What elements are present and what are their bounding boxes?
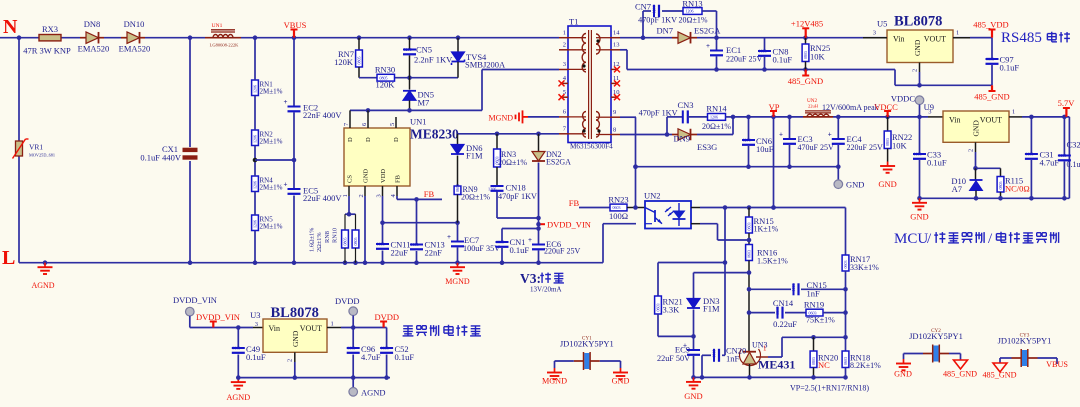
svg-text:GND: GND	[846, 180, 864, 190]
svg-text:UN1: UN1	[212, 23, 223, 29]
svg-text:20Ω±1%: 20Ω±1%	[702, 122, 731, 131]
svg-text:0.1uF: 0.1uF	[246, 352, 266, 362]
svg-text:0603: 0603	[843, 261, 848, 269]
svg-text:MGND: MGND	[542, 377, 567, 386]
svg-text:0603: 0603	[986, 56, 994, 61]
svg-text:DVDD_VIN: DVDD_VIN	[173, 295, 217, 305]
svg-text:1: 1	[763, 345, 767, 353]
svg-text:MCU: MCU	[894, 231, 928, 247]
svg-text:FB: FB	[569, 198, 580, 208]
svg-text:2: 2	[563, 42, 566, 49]
svg-text:10K: 10K	[892, 141, 908, 151]
svg-text:0603: 0603	[1058, 153, 1066, 158]
svg-text:1: 1	[331, 321, 334, 328]
svg-text:485_GND: 485_GND	[974, 92, 1009, 102]
svg-text:220uF 25V: 220uF 25V	[726, 55, 762, 64]
svg-text:CN18: CN18	[506, 183, 526, 193]
svg-text:1206: 1206	[743, 137, 751, 142]
svg-text:0805: 0805	[775, 307, 780, 315]
svg-text:Vin: Vin	[269, 324, 281, 333]
svg-text:3: 3	[928, 109, 931, 116]
svg-text:EMA520: EMA520	[119, 44, 151, 54]
svg-text:0603: 0603	[377, 241, 385, 246]
svg-text:22uH: 22uH	[808, 104, 819, 109]
svg-text:0603: 0603	[791, 284, 796, 292]
svg-text:5: 5	[563, 89, 566, 96]
svg-text:CS: CS	[347, 175, 354, 183]
svg-text:AGND: AGND	[226, 393, 250, 402]
svg-text:ME8230: ME8230	[410, 127, 459, 142]
svg-text:+: +	[528, 236, 532, 244]
svg-text:F1M: F1M	[703, 304, 720, 314]
svg-text:0603: 0603	[656, 304, 661, 312]
svg-text:M63156300F4: M63156300F4	[570, 143, 613, 151]
svg-text:0.1uF: 0.1uF	[1067, 160, 1080, 169]
svg-text:1.6Ω±1%: 1.6Ω±1%	[309, 227, 316, 252]
svg-text:F1M: F1M	[466, 151, 483, 161]
svg-text:A7: A7	[952, 184, 962, 194]
svg-text:470pF 1KV: 470pF 1KV	[498, 192, 537, 201]
svg-text:0805: 0805	[803, 51, 808, 59]
svg-text:0603: 0603	[411, 242, 419, 247]
svg-text:22uF 50V: 22uF 50V	[657, 354, 690, 363]
svg-text:VOUT: VOUT	[300, 324, 322, 333]
svg-text:+: +	[284, 181, 288, 189]
svg-text:U5: U5	[877, 19, 887, 29]
svg-text:GND: GND	[913, 39, 922, 56]
svg-text:0603: 0603	[455, 184, 460, 192]
svg-text:D: D	[393, 137, 400, 142]
svg-text:+: +	[447, 233, 451, 241]
svg-text:5.7V: 5.7V	[1058, 98, 1076, 108]
svg-text:L: L	[2, 247, 15, 269]
svg-text:EC1: EC1	[726, 45, 741, 55]
svg-text:Vin: Vin	[893, 35, 905, 44]
svg-text:D: D	[347, 137, 354, 142]
svg-text:1206: 1206	[404, 47, 412, 52]
svg-text:FB: FB	[424, 189, 435, 199]
svg-text:GND: GND	[684, 391, 702, 401]
svg-text:20Ω±1%: 20Ω±1%	[498, 158, 527, 167]
svg-text:+: +	[779, 131, 783, 139]
svg-text:EC9: EC9	[675, 345, 690, 355]
svg-text:MOV25D_681: MOV25D_681	[29, 153, 55, 158]
svg-text:100Ω: 100Ω	[609, 211, 628, 221]
svg-text:ME431: ME431	[758, 358, 795, 372]
svg-text:0603: 0603	[747, 223, 752, 231]
svg-text:AGND: AGND	[361, 388, 386, 398]
svg-text:0805: 0805	[343, 238, 348, 246]
svg-text:20Ω±1%: 20Ω±1%	[461, 193, 490, 202]
svg-text:5: 5	[389, 123, 396, 126]
svg-text:470pF 1KV: 470pF 1KV	[638, 16, 677, 25]
svg-text:DN10: DN10	[124, 19, 145, 29]
svg-text:JD102KY5PY1: JD102KY5PY1	[909, 331, 963, 341]
svg-text:0603: 0603	[347, 345, 355, 350]
svg-text:M7: M7	[418, 98, 430, 108]
svg-text:22nF: 22nF	[425, 248, 443, 258]
svg-text:75K±1%: 75K±1%	[806, 316, 835, 325]
svg-text:0.1uF 440V: 0.1uF 440V	[140, 153, 181, 163]
svg-text:GND: GND	[612, 377, 630, 386]
svg-text:1nF: 1nF	[807, 289, 821, 299]
svg-text:0.1uF: 0.1uF	[773, 55, 793, 65]
svg-text:RN10: RN10	[332, 228, 339, 243]
svg-text:VOUT: VOUT	[924, 35, 946, 44]
svg-text:3: 3	[563, 61, 566, 68]
svg-text:485_GND: 485_GND	[788, 76, 823, 86]
svg-text:0603: 0603	[232, 345, 240, 350]
svg-text:470pF 1KV: 470pF 1KV	[639, 109, 678, 118]
svg-text:0805: 0805	[811, 357, 816, 365]
svg-text:13: 13	[613, 42, 620, 49]
svg-text:20Ω±1%: 20Ω±1%	[679, 16, 708, 25]
svg-text:GND: GND	[363, 169, 370, 183]
svg-text:RS485: RS485	[1001, 30, 1042, 46]
svg-text:NC: NC	[818, 360, 830, 370]
svg-text:+12V485: +12V485	[791, 19, 823, 29]
svg-text:10uF: 10uF	[756, 144, 774, 154]
svg-text:2M±1%: 2M±1%	[260, 138, 283, 146]
svg-text:2M±1%: 2M±1%	[260, 223, 283, 231]
svg-text:0805: 0805	[496, 239, 504, 244]
svg-text:ES2GA: ES2GA	[546, 158, 571, 167]
svg-text:0805: 0805	[357, 57, 362, 65]
svg-text:MGND: MGND	[489, 114, 514, 123]
svg-text:DN7: DN7	[656, 26, 673, 36]
svg-text:RN13: RN13	[682, 0, 702, 9]
svg-text:33K±1%: 33K±1%	[850, 263, 879, 272]
svg-text:485_GND: 485_GND	[982, 371, 1016, 380]
svg-text:RN30: RN30	[375, 65, 395, 75]
svg-text:11: 11	[613, 75, 619, 82]
svg-text:0805: 0805	[885, 138, 890, 146]
svg-text:10: 10	[613, 89, 620, 96]
svg-text:0.22uF: 0.22uF	[773, 319, 797, 329]
svg-text:N: N	[3, 16, 18, 38]
svg-text:GND: GND	[894, 370, 912, 379]
svg-text:2: 2	[968, 149, 975, 152]
svg-text:GND: GND	[291, 330, 300, 347]
svg-text:0.1uF: 0.1uF	[1000, 63, 1020, 73]
svg-text:0603: 0603	[914, 151, 922, 156]
svg-text:100uF 35V: 100uF 35V	[463, 244, 500, 253]
svg-text:22uF: 22uF	[391, 248, 409, 258]
svg-text:4.7uF: 4.7uF	[361, 352, 381, 362]
svg-text:CN5: CN5	[416, 45, 432, 55]
svg-text:0603: 0603	[747, 250, 752, 258]
svg-text:DVDD: DVDD	[335, 296, 360, 306]
svg-text:RN14: RN14	[706, 104, 727, 114]
svg-text:2: 2	[358, 194, 365, 197]
svg-text:22nF 400V: 22nF 400V	[303, 110, 342, 120]
svg-text:10K: 10K	[810, 52, 826, 62]
svg-text:DN9: DN9	[673, 134, 690, 144]
svg-text:AGND: AGND	[31, 281, 54, 290]
svg-text:1206: 1206	[488, 187, 496, 192]
svg-text:VR1: VR1	[29, 143, 43, 152]
svg-text:BL8078: BL8078	[271, 305, 319, 321]
svg-text:D: D	[365, 137, 372, 142]
svg-text:3: 3	[376, 194, 383, 197]
svg-text:2M±1%: 2M±1%	[260, 88, 283, 96]
svg-text:3.3K: 3.3K	[663, 305, 681, 315]
svg-text:LG80608-222K: LG80608-222K	[210, 43, 239, 48]
svg-text:14: 14	[613, 30, 620, 37]
svg-text:ES3G: ES3G	[697, 142, 717, 152]
svg-text:VBUS: VBUS	[1046, 360, 1068, 369]
svg-text:1: 1	[563, 30, 566, 37]
svg-text:U3: U3	[250, 310, 260, 320]
svg-text:1206: 1206	[253, 135, 258, 143]
svg-text:22uF 400V: 22uF 400V	[303, 193, 342, 203]
svg-text:FB: FB	[395, 174, 402, 183]
svg-text:T1: T1	[569, 17, 578, 27]
svg-text:0805: 0805	[353, 238, 358, 246]
svg-text:GND: GND	[910, 212, 928, 222]
svg-text:EMA520: EMA520	[78, 44, 110, 54]
svg-text:0.1uF: 0.1uF	[927, 158, 947, 168]
svg-text:RN8: RN8	[324, 231, 331, 243]
svg-text:C32: C32	[1067, 140, 1080, 150]
svg-text:470uF 25V: 470uF 25V	[798, 143, 834, 152]
svg-text:3: 3	[873, 30, 876, 37]
svg-text:2: 2	[912, 69, 919, 72]
svg-text:RN19: RN19	[804, 300, 824, 310]
svg-text:1206: 1206	[253, 220, 258, 228]
svg-text:485_VDD: 485_VDD	[973, 20, 1008, 30]
svg-text:+: +	[284, 98, 288, 106]
svg-text:RX3: RX3	[42, 24, 58, 34]
svg-text:13V/20mA: 13V/20mA	[530, 286, 562, 294]
svg-text:NC/0Ω: NC/0Ω	[1005, 184, 1030, 194]
svg-text:1206: 1206	[253, 181, 258, 189]
svg-text:CN3: CN3	[677, 100, 693, 110]
svg-text:47R 3W KNP: 47R 3W KNP	[23, 46, 71, 56]
svg-text:Vin: Vin	[949, 116, 961, 125]
svg-text:RN23: RN23	[608, 195, 628, 205]
svg-text:0805: 0805	[712, 350, 717, 358]
svg-text:0603: 0603	[381, 345, 389, 350]
svg-text:3: 3	[255, 321, 258, 328]
svg-text:DVDD_VIN: DVDD_VIN	[196, 312, 240, 322]
svg-text:120K: 120K	[376, 80, 396, 90]
svg-text:GND: GND	[878, 179, 896, 189]
svg-text:0603: 0603	[759, 48, 767, 53]
svg-text:MGND: MGND	[445, 277, 470, 286]
svg-text:1nF: 1nF	[726, 354, 740, 364]
svg-text:VDDC: VDDC	[891, 94, 915, 104]
svg-text:VDD: VDD	[380, 169, 387, 183]
svg-text:GND: GND	[972, 120, 981, 137]
svg-text:0603: 0603	[843, 357, 848, 365]
svg-text:220uF 25V: 220uF 25V	[847, 143, 883, 152]
svg-text:0805: 0805	[998, 182, 1003, 190]
svg-text:8: 8	[613, 126, 616, 133]
svg-text:UN1: UN1	[410, 117, 427, 127]
svg-text:2M±1%: 2M±1%	[260, 184, 283, 192]
svg-text:1206: 1206	[710, 115, 718, 120]
svg-text:120K: 120K	[334, 57, 354, 67]
svg-text:12: 12	[613, 61, 620, 68]
svg-text:DN8: DN8	[84, 19, 101, 29]
svg-text:CN7: CN7	[635, 2, 651, 12]
svg-text:1K±1%: 1K±1%	[754, 225, 779, 234]
svg-text:DVDD_VIN: DVDD_VIN	[547, 220, 591, 230]
svg-text:1.5K±1%: 1.5K±1%	[757, 257, 788, 266]
svg-text:0.1uF: 0.1uF	[395, 352, 415, 362]
svg-text:+: +	[828, 131, 832, 139]
svg-text:JD102KY5PY1: JD102KY5PY1	[998, 336, 1052, 346]
svg-text:0.1uF: 0.1uF	[510, 245, 530, 255]
svg-text:1: 1	[342, 194, 349, 197]
svg-text:V3:: V3:	[520, 271, 541, 286]
svg-text:0603: 0603	[1025, 151, 1033, 156]
svg-text:JD102KY5PY1: JD102KY5PY1	[560, 339, 614, 349]
svg-text:CN14: CN14	[773, 298, 794, 308]
svg-text:BL8078: BL8078	[894, 14, 942, 30]
svg-text:SMBJ200A: SMBJ200A	[465, 60, 506, 70]
svg-text:2Ω±1%: 2Ω±1%	[316, 232, 323, 252]
svg-text:VP=2.5(1+RN17/RN18): VP=2.5(1+RN17/RN18)	[790, 384, 869, 393]
svg-text:1206: 1206	[686, 9, 694, 14]
svg-text:220uF 25V: 220uF 25V	[544, 247, 580, 256]
svg-text:1206: 1206	[652, 5, 657, 13]
svg-text:4.7uF: 4.7uF	[1040, 158, 1060, 168]
svg-text:1: 1	[956, 30, 959, 37]
svg-text:UN2: UN2	[644, 191, 661, 201]
svg-text:VOUT: VOUT	[980, 116, 1002, 125]
svg-text:12V/600mA peak: 12V/600mA peak	[822, 103, 879, 112]
svg-text:2.2nF 1KV: 2.2nF 1KV	[414, 55, 453, 65]
svg-text:1206: 1206	[253, 85, 258, 93]
svg-text:2: 2	[287, 359, 294, 362]
svg-text:485_GND: 485_GND	[943, 370, 977, 379]
svg-text:+: +	[706, 42, 710, 50]
svg-text:1: 1	[1012, 109, 1015, 116]
svg-text:0603: 0603	[613, 205, 621, 210]
svg-text:9: 9	[613, 109, 616, 116]
svg-text:8.2K±1%: 8.2K±1%	[850, 361, 881, 370]
